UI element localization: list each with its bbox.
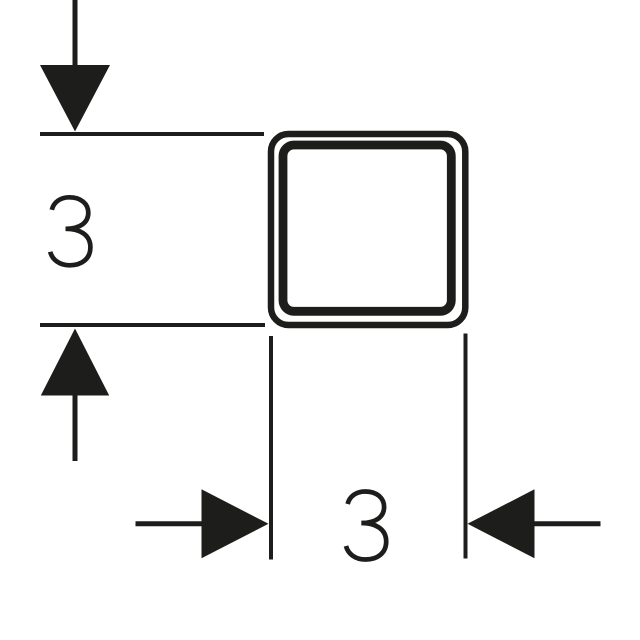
- square tube profile: outer wall: [271, 134, 465, 325]
- value label 3 (width): [346, 492, 386, 560]
- dimension arrowhead (left): [468, 489, 535, 558]
- dimension line: top edge reference: [40, 132, 264, 136]
- dimension arrowhead (up): [41, 329, 109, 396]
- dimension arrowhead (right): [202, 489, 269, 558]
- dimension arrowhead (down): [40, 65, 110, 132]
- wire: top arrow leader line: [73, 0, 78, 66]
- wire: bottom-left arrow leader line: [73, 395, 78, 461]
- square tube profile: inner wall: [283, 145, 451, 311]
- value label 3 (height): [50, 197, 90, 265]
- wire: left arrow leader line: [136, 521, 204, 526]
- wire: right arrow leader line: [534, 521, 601, 526]
- dimension line: bottom edge reference: [40, 323, 265, 327]
- extension line: right edge of profile: [464, 334, 468, 559]
- extension line: left edge of profile: [269, 336, 273, 560]
